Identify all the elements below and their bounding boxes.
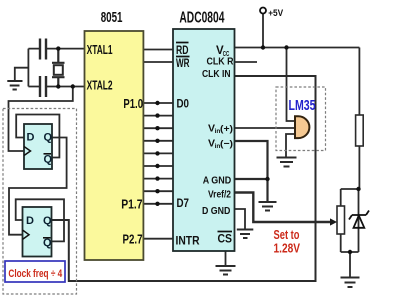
resistor R1 [356, 115, 364, 146]
node bus junction D7 [155, 202, 159, 206]
wire data bus D5 [143, 165, 173, 167]
svg-text:RD: RD [176, 45, 189, 57]
wire INTR [143, 238, 173, 240]
svg-text:Q: Q [44, 154, 53, 166]
wire gnd stem [349, 252, 351, 277]
flip-flop FF1 box [24, 124, 52, 169]
wire FF2 Qbar to D loop [16, 199, 64, 241]
node bus junction D0 [155, 101, 159, 105]
wire LM35 supply [287, 48, 296, 122]
flip-flop FF1 clock pin [24, 147, 31, 156]
node bus junction D5 [155, 164, 159, 168]
wire FF1 Qbar to D loop [16, 115, 59, 158]
wire pot top [340, 189, 342, 206]
svg-text:P2.7: P2.7 [123, 233, 143, 247]
flip-flop FF2 clock pin [23, 230, 30, 239]
svg-text:1.28V: 1.28V [274, 241, 301, 255]
crystal Y1 body [54, 65, 63, 75]
wire zener branch [358, 189, 360, 252]
svg-text:CLK IN: CLK IN [202, 68, 231, 80]
crystal Y1 [52, 49, 65, 87]
wire LM35 gnd pin [286, 134, 295, 158]
sensor LM35 body [295, 116, 309, 138]
node bus junction D4 [155, 151, 159, 155]
node AGND junction [265, 177, 269, 181]
node rail junction [356, 187, 360, 191]
LM35 dashed box [276, 87, 326, 151]
wire CS [225, 251, 227, 266]
svg-text:8051: 8051 [101, 9, 123, 26]
svg-text:P1.7: P1.7 [121, 198, 142, 212]
wire data bus D7 [143, 203, 173, 205]
node bus junction D2 [155, 126, 159, 130]
wire data bus D2 [143, 127, 173, 129]
capacitor C1 [40, 39, 46, 60]
ground zener [341, 278, 360, 288]
wire left vertical C1-C2 [27, 49, 29, 87]
ground AGND [259, 202, 277, 211]
node bus junction D7a [155, 189, 159, 193]
wire +5V drop [262, 14, 264, 48]
node bus junction D3 [155, 139, 159, 143]
svg-text:CLK R: CLK R [207, 56, 234, 68]
svg-text:Clock freq ÷ 4: Clock freq ÷ 4 [8, 268, 62, 280]
svg-text:(+): (+) [220, 123, 233, 134]
node XTAL2 crystal junction [56, 84, 60, 88]
adc ADC0804 box [173, 29, 235, 251]
svg-text:D: D [26, 215, 34, 227]
svg-text:D7: D7 [177, 198, 190, 210]
flip-flop FF2 box [23, 207, 52, 257]
svg-text:Q: Q [44, 132, 53, 144]
wire data bus D4 [143, 152, 173, 154]
svg-text:Q: Q [43, 215, 52, 227]
wire CLK R stub [235, 61, 258, 63]
node bus junction D6 [155, 176, 159, 180]
wire top rail [341, 188, 360, 190]
svg-text:Q: Q [43, 237, 52, 249]
wire A GND [235, 178, 268, 180]
svg-text:D: D [27, 132, 35, 144]
ground LM35 [277, 158, 297, 167]
wire RD [143, 49, 173, 51]
wire FF2 Q to ADC CLK IN [52, 76, 316, 281]
divider dashed box [3, 109, 77, 295]
wire Vin- to AGND [235, 141, 268, 202]
ground DGND [237, 230, 254, 239]
wire pot bottom [340, 234, 342, 252]
wire XTAL2 to divider clock [9, 87, 73, 152]
svg-text:LM35: LM35 [289, 98, 316, 114]
ground CS [216, 266, 236, 275]
wire VCC net [235, 47, 360, 49]
wiper arrow [330, 218, 337, 225]
wire WR [143, 61, 173, 63]
label clock freq box [5, 261, 65, 282]
node bottom rail junction [348, 250, 352, 254]
wire bottom rail [341, 251, 359, 253]
mcu 8051 box [85, 31, 144, 260]
svg-text:D0: D0 [177, 99, 190, 111]
svg-text:A GND: A GND [203, 174, 232, 186]
svg-text:XTAL2: XTAL2 [87, 78, 113, 92]
node XTAL1 crystal junction [56, 46, 60, 50]
node VCC junction 2 [284, 45, 288, 49]
svg-text:P1.0: P1.0 [123, 97, 143, 111]
svg-text:(−): (−) [220, 138, 233, 149]
potentiometer RV1 [337, 206, 345, 234]
capacitor C2 [40, 76, 46, 97]
svg-text:+5V: +5V [268, 8, 284, 19]
wire ground link [15, 68, 29, 81]
svg-text:WR: WR [176, 58, 190, 70]
svg-text:Set to: Set to [274, 228, 300, 242]
wire data bus D7a [143, 190, 173, 192]
wire Vin+ [235, 127, 296, 129]
node +5V terminal [260, 8, 266, 14]
wire data bus D0 [143, 102, 173, 104]
wire D GND [235, 209, 246, 230]
node VCC junction 1 [261, 45, 265, 49]
node bus junction D1 [155, 113, 159, 117]
wire XTAL1 net [28, 48, 84, 50]
zener diode D1 [349, 211, 369, 228]
svg-text:ADC0804: ADC0804 [179, 10, 224, 27]
node XTAL2 divider junction [71, 84, 75, 88]
svg-text:XTAL1: XTAL1 [87, 43, 113, 57]
svg-text:CS: CS [218, 234, 233, 246]
wire XTAL2 net [28, 86, 84, 88]
wire resistor R1 bottom [358, 146, 360, 189]
svg-text:INTR: INTR [176, 234, 200, 248]
wire data bus D6 [143, 178, 173, 180]
wire FF1 Q to FF2 clock [9, 138, 67, 235]
wire Vref/2 to wiper [235, 193, 331, 223]
svg-text:Vref/2: Vref/2 [208, 189, 231, 201]
wire data bus D3 [143, 140, 173, 142]
svg-text:D GND: D GND [202, 205, 231, 217]
ground oscillator [7, 81, 22, 90]
wire data bus D1 [143, 115, 173, 117]
wire resistor R1 top [358, 48, 360, 116]
